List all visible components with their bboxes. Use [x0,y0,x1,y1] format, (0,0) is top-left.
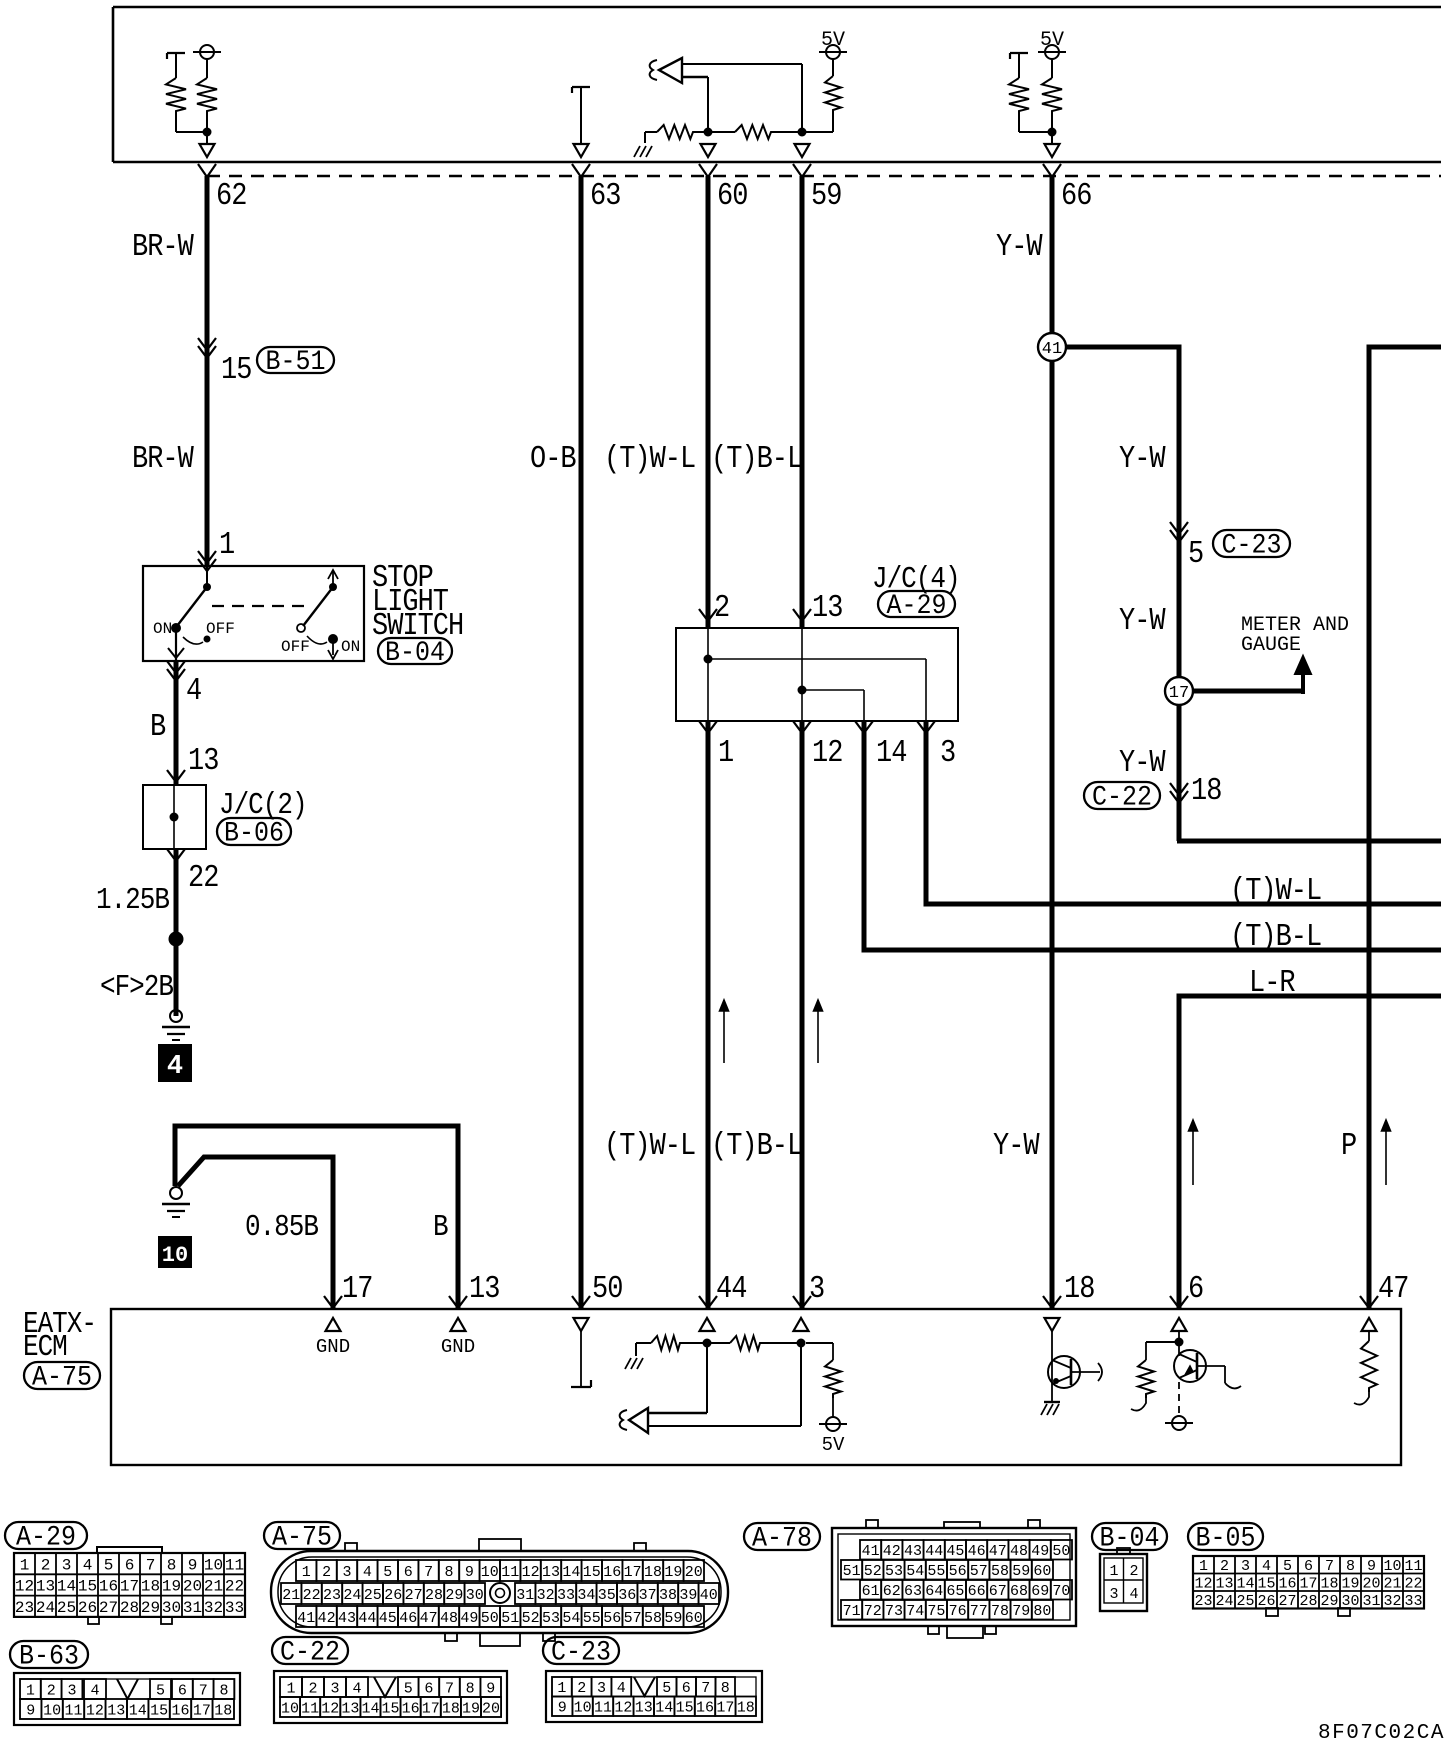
svg-text:35: 35 [598,1587,616,1604]
svg-text:1: 1 [1199,1558,1208,1575]
svg-text:<F>2B: <F>2B [100,971,173,1004]
svg-text:ECM: ECM [23,1331,67,1364]
svg-text:22: 22 [188,860,218,895]
svg-text:9: 9 [188,1556,198,1574]
svg-text:13: 13 [36,1578,55,1596]
svg-text:6: 6 [178,1682,187,1699]
svg-text:64: 64 [925,1583,943,1600]
svg-text:1.25B: 1.25B [96,884,169,917]
svg-text:6: 6 [404,1564,413,1581]
svg-text:10: 10 [1383,1558,1401,1575]
svg-text:Y-W: Y-W [1119,441,1166,476]
svg-text:ON: ON [153,620,172,638]
svg-text:14: 14 [876,735,907,770]
svg-text:30: 30 [466,1587,484,1604]
svg-text:BR-W: BR-W [132,229,194,264]
svg-text:12: 12 [321,1700,339,1717]
svg-text:(T)W-L: (T)W-L [604,441,695,476]
svg-text:9: 9 [1367,1558,1376,1575]
svg-text:GND: GND [316,1336,350,1358]
svg-text:59: 59 [811,178,841,213]
svg-text:6: 6 [1188,1271,1203,1306]
svg-text:55: 55 [927,1563,945,1580]
svg-text:5: 5 [1188,536,1203,571]
svg-text:1: 1 [26,1682,35,1699]
svg-text:2: 2 [1220,1558,1229,1575]
svg-text:20: 20 [183,1578,202,1596]
svg-text:B-05: B-05 [1196,1522,1256,1554]
svg-text:11: 11 [64,1702,82,1719]
svg-text:7: 7 [701,1680,710,1697]
svg-text:11: 11 [225,1556,244,1574]
svg-text:11: 11 [594,1700,612,1717]
svg-text:70: 70 [1052,1583,1070,1600]
svg-text:50: 50 [592,1271,622,1306]
svg-text:(T)B-L: (T)B-L [1230,919,1321,954]
svg-text:O-B: O-B [530,441,576,476]
svg-text:74: 74 [906,1603,924,1620]
svg-text:A-75: A-75 [272,1521,332,1553]
svg-text:10: 10 [281,1700,299,1717]
svg-text:10: 10 [481,1564,499,1581]
svg-text:47: 47 [420,1610,438,1627]
svg-text:18: 18 [737,1700,755,1717]
svg-text:18: 18 [141,1578,160,1596]
svg-text:71: 71 [843,1603,861,1620]
svg-text:1: 1 [20,1556,30,1574]
svg-text:29: 29 [1320,1593,1338,1610]
svg-text:8: 8 [444,1564,453,1581]
svg-text:23: 23 [323,1587,341,1604]
svg-text:25: 25 [57,1599,76,1617]
svg-text:18: 18 [1064,1271,1094,1306]
svg-text:53: 53 [885,1563,903,1580]
svg-text:B-51: B-51 [266,346,326,378]
svg-text:13: 13 [341,1700,359,1717]
svg-text:A-78: A-78 [752,1522,812,1554]
svg-text:66: 66 [1061,178,1091,213]
svg-text:17: 17 [716,1700,734,1717]
svg-text:65: 65 [946,1583,964,1600]
svg-text:1: 1 [557,1680,566,1697]
svg-text:Y-W: Y-W [1119,603,1166,638]
svg-text:9: 9 [486,1680,495,1697]
svg-text:45: 45 [946,1543,964,1560]
svg-text:14: 14 [361,1700,379,1717]
svg-text:1: 1 [219,527,235,562]
svg-text:16: 16 [1278,1576,1296,1593]
svg-text:31: 31 [183,1599,202,1617]
svg-text:59: 59 [1012,1563,1030,1580]
svg-text:17: 17 [1169,684,1189,703]
svg-text:15: 15 [150,1702,168,1719]
svg-text:C-22: C-22 [1092,781,1152,813]
svg-text:49: 49 [460,1610,478,1627]
svg-text:15: 15 [583,1564,601,1581]
svg-text:30: 30 [162,1599,181,1617]
svg-text:55: 55 [583,1610,601,1627]
svg-text:49: 49 [1031,1543,1049,1560]
svg-text:60: 60 [717,178,747,213]
svg-text:20: 20 [1362,1576,1380,1593]
svg-text:25: 25 [1236,1593,1254,1610]
svg-text:3: 3 [809,1271,824,1306]
svg-text:5: 5 [662,1680,671,1697]
svg-text:29: 29 [445,1587,463,1604]
svg-text:63: 63 [904,1583,922,1600]
svg-text:15: 15 [78,1578,97,1596]
svg-text:43: 43 [904,1543,922,1560]
svg-text:21: 21 [1383,1576,1401,1593]
svg-text:32: 32 [537,1587,555,1604]
svg-text:54: 54 [562,1610,580,1627]
svg-text:32: 32 [204,1599,223,1617]
svg-text:1: 1 [718,735,734,770]
svg-text:51: 51 [843,1563,861,1580]
svg-text:OFF: OFF [206,620,235,638]
svg-text:16: 16 [171,1702,189,1719]
svg-text:33: 33 [557,1587,575,1604]
svg-text:53: 53 [542,1610,560,1627]
svg-text:3: 3 [940,735,955,770]
svg-text:31: 31 [1362,1593,1380,1610]
svg-text:23: 23 [1194,1593,1212,1610]
svg-text:42: 42 [318,1610,336,1627]
svg-text:13: 13 [812,590,842,625]
svg-text:7: 7 [199,1682,208,1699]
svg-text:31: 31 [516,1587,534,1604]
svg-text:10: 10 [574,1700,592,1717]
svg-text:42: 42 [883,1543,901,1560]
svg-text:38: 38 [659,1587,677,1604]
svg-text:27: 27 [99,1599,118,1617]
svg-text:51: 51 [501,1610,519,1627]
svg-text:9: 9 [465,1564,474,1581]
svg-text:68: 68 [1010,1583,1028,1600]
svg-text:4: 4 [617,1680,626,1697]
svg-text:79: 79 [1012,1603,1030,1620]
svg-text:(T)B-L: (T)B-L [711,441,802,476]
svg-text:43: 43 [338,1610,356,1627]
svg-text:A-29: A-29 [16,1521,76,1553]
svg-text:15: 15 [1257,1576,1275,1593]
svg-text:5: 5 [156,1682,165,1699]
svg-text:19: 19 [462,1700,480,1717]
svg-text:B-63: B-63 [19,1640,79,1672]
svg-text:9: 9 [558,1700,567,1717]
svg-text:33: 33 [225,1599,244,1617]
svg-text:77: 77 [970,1603,988,1620]
svg-text:32: 32 [1383,1593,1401,1610]
svg-text:14: 14 [562,1564,580,1581]
svg-text:75: 75 [927,1603,945,1620]
svg-text:5V: 5V [822,1434,845,1456]
svg-text:8: 8 [219,1682,228,1699]
svg-text:10: 10 [162,1243,188,1268]
svg-text:13: 13 [469,1271,499,1306]
svg-text:52: 52 [864,1563,882,1580]
svg-text:4: 4 [363,1564,372,1581]
svg-text:GAUGE: GAUGE [1241,634,1301,657]
svg-text:39: 39 [679,1587,697,1604]
svg-text:12: 12 [522,1564,540,1581]
svg-text:2: 2 [41,1556,51,1574]
svg-text:58: 58 [991,1563,1009,1580]
svg-text:Y-W: Y-W [993,1128,1040,1163]
svg-text:Y-W: Y-W [1119,745,1166,780]
svg-text:48: 48 [440,1610,458,1627]
svg-text:1: 1 [1109,1563,1118,1580]
svg-text:11: 11 [1404,1558,1422,1575]
svg-text:3: 3 [597,1680,606,1697]
svg-text:57: 57 [624,1610,642,1627]
svg-text:18: 18 [442,1700,460,1717]
svg-text:B: B [150,709,166,744]
svg-text:76: 76 [949,1603,967,1620]
svg-text:44: 44 [925,1543,943,1560]
svg-text:27: 27 [405,1587,423,1604]
svg-text:52: 52 [522,1610,540,1627]
svg-text:18: 18 [214,1702,232,1719]
svg-text:16: 16 [402,1700,420,1717]
svg-text:5V: 5V [1040,29,1064,52]
svg-text:A-29: A-29 [887,590,947,622]
svg-text:14: 14 [57,1578,76,1596]
svg-text:12: 12 [1194,1576,1212,1593]
svg-text:50: 50 [1052,1543,1070,1560]
svg-text:11: 11 [301,1700,319,1717]
svg-text:P: P [1341,1128,1356,1163]
svg-text:41: 41 [862,1543,880,1560]
svg-text:56: 56 [603,1610,621,1627]
svg-text:6: 6 [682,1680,691,1697]
svg-text:22: 22 [225,1578,244,1596]
svg-text:28: 28 [120,1599,139,1617]
svg-text:5: 5 [404,1680,413,1697]
svg-text:20: 20 [685,1564,703,1581]
svg-text:Y-W: Y-W [996,229,1043,264]
svg-text:24: 24 [343,1587,361,1604]
svg-text:21: 21 [204,1578,223,1596]
svg-text:C-23: C-23 [551,1636,611,1668]
svg-text:2: 2 [714,590,729,625]
svg-text:24: 24 [36,1599,55,1617]
svg-text:47: 47 [1378,1271,1408,1306]
svg-text:6: 6 [125,1556,135,1574]
svg-text:13: 13 [1215,1576,1233,1593]
svg-text:(T)W-L: (T)W-L [604,1128,695,1163]
svg-text:5: 5 [104,1556,114,1574]
svg-text:13: 13 [635,1700,653,1717]
svg-text:60: 60 [1033,1563,1051,1580]
svg-text:BR-W: BR-W [132,441,194,476]
svg-text:14: 14 [129,1702,147,1719]
svg-text:62: 62 [216,178,246,213]
svg-text:23: 23 [15,1599,34,1617]
svg-text:2: 2 [1129,1563,1138,1580]
svg-text:7: 7 [146,1556,156,1574]
svg-text:10: 10 [43,1702,61,1719]
svg-text:21: 21 [282,1587,300,1604]
svg-text:12: 12 [614,1700,632,1717]
svg-text:72: 72 [864,1603,882,1620]
svg-text:56: 56 [949,1563,967,1580]
svg-text:15: 15 [221,352,251,387]
svg-text:2: 2 [308,1680,317,1697]
svg-text:18: 18 [644,1564,662,1581]
svg-text:22: 22 [303,1587,321,1604]
svg-text:C-22: C-22 [280,1636,340,1668]
svg-text:4: 4 [90,1682,99,1699]
svg-text:15: 15 [676,1700,694,1717]
svg-text:16: 16 [603,1564,621,1581]
svg-text:33: 33 [1404,1593,1422,1610]
svg-text:1: 1 [286,1680,295,1697]
svg-text:25: 25 [364,1587,382,1604]
svg-text:36: 36 [618,1587,636,1604]
svg-text:19: 19 [162,1578,181,1596]
svg-text:59: 59 [664,1610,682,1627]
svg-text:12: 12 [812,735,842,770]
svg-text:17: 17 [193,1702,211,1719]
svg-text:48: 48 [1010,1543,1028,1560]
svg-text:(T)B-L: (T)B-L [711,1128,802,1163]
svg-text:3: 3 [62,1556,72,1574]
svg-text:8: 8 [167,1556,177,1574]
svg-text:B: B [433,1211,448,1244]
svg-text:28: 28 [425,1587,443,1604]
svg-text:13: 13 [107,1702,125,1719]
svg-text:15: 15 [382,1700,400,1717]
svg-text:C-23: C-23 [1222,529,1282,561]
svg-text:A-75: A-75 [32,1361,92,1393]
svg-text:66: 66 [968,1583,986,1600]
svg-text:7: 7 [424,1564,433,1581]
svg-text:4: 4 [167,1052,183,1082]
svg-text:3: 3 [342,1564,351,1581]
svg-text:17: 17 [120,1578,139,1596]
svg-text:22: 22 [1404,1576,1422,1593]
svg-text:4: 4 [1262,1558,1271,1575]
svg-text:0.85B: 0.85B [245,1211,318,1244]
svg-text:3: 3 [1109,1586,1118,1603]
svg-text:5V: 5V [821,29,845,52]
svg-text:44: 44 [716,1271,747,1306]
svg-text:3: 3 [1241,1558,1250,1575]
svg-text:78: 78 [991,1603,1009,1620]
svg-text:7: 7 [1325,1558,1334,1575]
svg-text:80: 80 [1033,1603,1051,1620]
svg-text:28: 28 [1299,1593,1317,1610]
svg-text:58: 58 [644,1610,662,1627]
svg-text:34: 34 [577,1587,595,1604]
svg-text:4: 4 [1129,1586,1138,1603]
svg-text:13: 13 [542,1564,560,1581]
svg-text:40: 40 [700,1587,718,1604]
svg-text:3: 3 [67,1682,76,1699]
svg-text:8: 8 [721,1680,730,1697]
svg-text:5: 5 [1283,1558,1292,1575]
svg-text:14: 14 [655,1700,673,1717]
svg-text:4: 4 [186,673,202,708]
svg-text:29: 29 [141,1599,160,1617]
svg-text:17: 17 [342,1271,372,1306]
svg-text:3: 3 [330,1680,339,1697]
svg-text:1: 1 [302,1564,311,1581]
svg-text:4: 4 [352,1680,361,1697]
svg-text:17: 17 [422,1700,440,1717]
svg-text:17: 17 [1299,1576,1317,1593]
svg-text:10: 10 [204,1556,223,1574]
svg-text:GND: GND [441,1336,475,1358]
svg-text:47: 47 [989,1543,1007,1560]
svg-text:B-04: B-04 [385,637,445,669]
svg-text:46: 46 [399,1610,417,1627]
svg-text:45: 45 [379,1610,397,1627]
svg-text:16: 16 [99,1578,118,1596]
svg-text:ON: ON [341,638,360,656]
svg-text:44: 44 [358,1610,376,1627]
svg-text:54: 54 [906,1563,924,1580]
svg-text:OFF: OFF [281,638,310,656]
svg-text:27: 27 [1278,1593,1296,1610]
svg-text:17: 17 [624,1564,642,1581]
svg-text:12: 12 [86,1702,104,1719]
svg-text:24: 24 [1215,1593,1233,1610]
svg-text:7: 7 [445,1680,454,1697]
svg-text:20: 20 [482,1700,500,1717]
svg-text:61: 61 [862,1583,880,1600]
svg-text:41: 41 [1042,340,1062,359]
svg-text:62: 62 [883,1583,901,1600]
svg-text:B-06: B-06 [224,817,284,849]
svg-text:19: 19 [664,1564,682,1581]
svg-text:67: 67 [989,1583,1007,1600]
svg-text:26: 26 [78,1599,97,1617]
svg-text:18: 18 [1320,1576,1338,1593]
svg-text:8: 8 [1346,1558,1355,1575]
svg-text:8F07C02CA: 8F07C02CA [1318,1722,1445,1740]
svg-text:13: 13 [188,743,218,778]
svg-text:41: 41 [297,1610,315,1627]
svg-text:8: 8 [466,1680,475,1697]
svg-text:6: 6 [424,1680,433,1697]
svg-text:63: 63 [590,178,620,213]
svg-text:2: 2 [47,1682,56,1699]
svg-text:50: 50 [481,1610,499,1627]
svg-text:4: 4 [83,1556,93,1574]
svg-text:2: 2 [322,1564,331,1581]
svg-text:37: 37 [639,1587,657,1604]
svg-text:9: 9 [26,1702,35,1719]
svg-text:69: 69 [1031,1583,1049,1600]
svg-text:14: 14 [1236,1576,1254,1593]
svg-text:26: 26 [384,1587,402,1604]
svg-text:73: 73 [885,1603,903,1620]
svg-text:16: 16 [696,1700,714,1717]
svg-text:46: 46 [968,1543,986,1560]
svg-text:2: 2 [577,1680,586,1697]
svg-text:(T)W-L: (T)W-L [1230,873,1321,908]
svg-text:6: 6 [1304,1558,1313,1575]
svg-text:19: 19 [1341,1576,1359,1593]
svg-text:18: 18 [1191,773,1221,808]
svg-text:11: 11 [501,1564,519,1581]
svg-text:5: 5 [383,1564,392,1581]
svg-text:12: 12 [15,1578,34,1596]
svg-text:60: 60 [685,1610,703,1627]
svg-text:57: 57 [970,1563,988,1580]
